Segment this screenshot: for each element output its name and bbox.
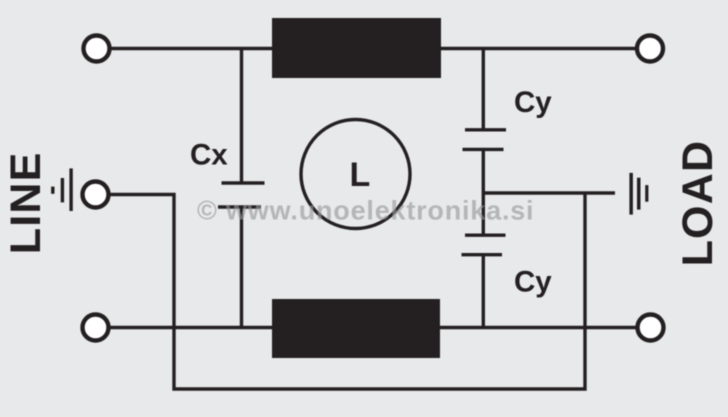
svg-text:Cy: Cy — [514, 86, 552, 119]
svg-text:Cx: Cx — [190, 139, 228, 172]
svg-text:Cy: Cy — [514, 266, 552, 299]
svg-text:LINE: LINE — [2, 152, 50, 255]
svg-text:© www.unoelektronika.si: © www.unoelektronika.si — [197, 196, 534, 226]
svg-text:L: L — [350, 156, 371, 194]
svg-text:LOAD: LOAD — [674, 140, 722, 267]
